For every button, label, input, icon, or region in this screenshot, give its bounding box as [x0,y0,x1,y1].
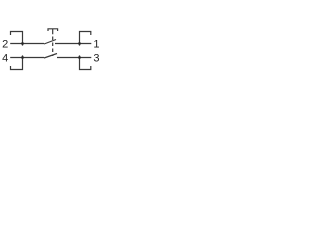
svg-text:1: 1 [93,39,99,51]
contact blade bottom (3-4) [44,54,57,59]
wire: top-right hook [80,32,91,46]
wire: bottom-left hook [11,55,23,69]
junction top-right [78,42,81,45]
svg-text:2: 2 [2,39,8,51]
mechanical link (dashed) [52,37,54,57]
svg-text:3: 3 [93,53,99,65]
wire: terminal 1 lead [55,43,91,45]
pushbutton actuator [48,29,58,34]
svg-text:4: 4 [2,53,8,65]
wire: terminal 4 lead [10,57,44,59]
wire: terminal 2 lead [10,43,44,45]
junction top-left [21,42,24,45]
wire: terminal 3 lead [57,57,91,59]
junction bottom-right [78,56,81,59]
wire: bottom-right hook [80,55,91,69]
wire: top-left hook [11,32,23,46]
contact blade top (1-2) [44,40,56,45]
junction bottom-left [21,56,24,59]
